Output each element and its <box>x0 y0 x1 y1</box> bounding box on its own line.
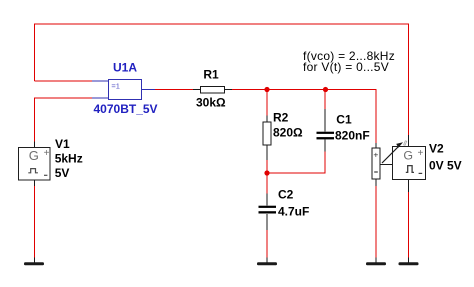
wire: R1 to node A and down to control box <box>232 90 376 144</box>
svg-text:G: G <box>29 148 39 163</box>
svg-text:820nF: 820nF <box>335 128 370 142</box>
svg-text:4070BT_5V: 4070BT_5V <box>94 102 158 116</box>
svg-text:+: + <box>373 150 378 160</box>
op-amp U1A XOR gate 4070BT_5V <box>92 80 155 100</box>
voltage source V1 square-wave generator <box>19 142 51 187</box>
wire: node A down to C1 <box>324 90 326 109</box>
wire: V1 to U1A input B <box>35 98 93 142</box>
voltage source V2 voltage-controlled square-wave generator <box>382 135 426 192</box>
wire: V1 bottom to ground <box>34 186 36 258</box>
svg-text:for V(t) = 0...5V: for V(t) = 0...5V <box>303 60 389 74</box>
ground under V2 <box>399 262 419 265</box>
resistor R2 <box>263 116 271 161</box>
ground under C2 <box>257 262 277 265</box>
node A junction dot (R2 top) <box>264 87 269 92</box>
svg-text:820Ω: 820Ω <box>273 126 303 140</box>
wire: control box bottom to ground <box>375 186 377 258</box>
svg-text:+: + <box>44 148 50 159</box>
wire: U1A input A horizontal <box>35 80 93 82</box>
svg-text:5V: 5V <box>55 166 70 180</box>
wire: V2 bottom to ground <box>408 192 410 258</box>
svg-text:+: + <box>418 148 424 159</box>
wire: C2 bottom to ground <box>266 226 268 258</box>
node B junction dot (R2 bottom) <box>264 170 269 175</box>
svg-text:G: G <box>403 148 413 162</box>
wire: feedback top rail from V2 output to U1A input A <box>35 24 409 135</box>
svg-text:R1: R1 <box>203 68 219 82</box>
wire: node A down to R2 <box>266 90 268 116</box>
svg-text:V2: V2 <box>429 142 444 156</box>
wire: U1A output to R1 <box>155 89 193 91</box>
svg-text:V1: V1 <box>55 137 70 151</box>
control input box of V2 (+/- control terminals) <box>372 143 380 186</box>
node A junction dot (C1 top) <box>323 87 328 92</box>
svg-text:C2: C2 <box>278 187 294 201</box>
svg-text:5kHz: 5kHz <box>55 152 83 166</box>
svg-text:4.7uF: 4.7uF <box>278 204 309 218</box>
wire: node B horizontal to C1 bottom <box>267 152 325 174</box>
svg-text:0V 5V: 0V 5V <box>429 158 462 172</box>
resistor R1 <box>193 87 232 94</box>
svg-text:R2: R2 <box>273 110 289 124</box>
svg-text:U1A: U1A <box>113 61 137 75</box>
capacitor C2 <box>259 194 277 231</box>
ground under V1 <box>24 262 44 265</box>
svg-text:=1: =1 <box>111 82 120 91</box>
svg-text:C1: C1 <box>336 112 352 126</box>
capacitor C1 <box>317 109 335 152</box>
svg-text:30kΩ: 30kΩ <box>196 95 226 109</box>
wire: control box to V2 left side <box>380 164 393 166</box>
wire: R2 bottom to node B and C2 <box>266 160 268 194</box>
ground under control box <box>366 262 386 265</box>
